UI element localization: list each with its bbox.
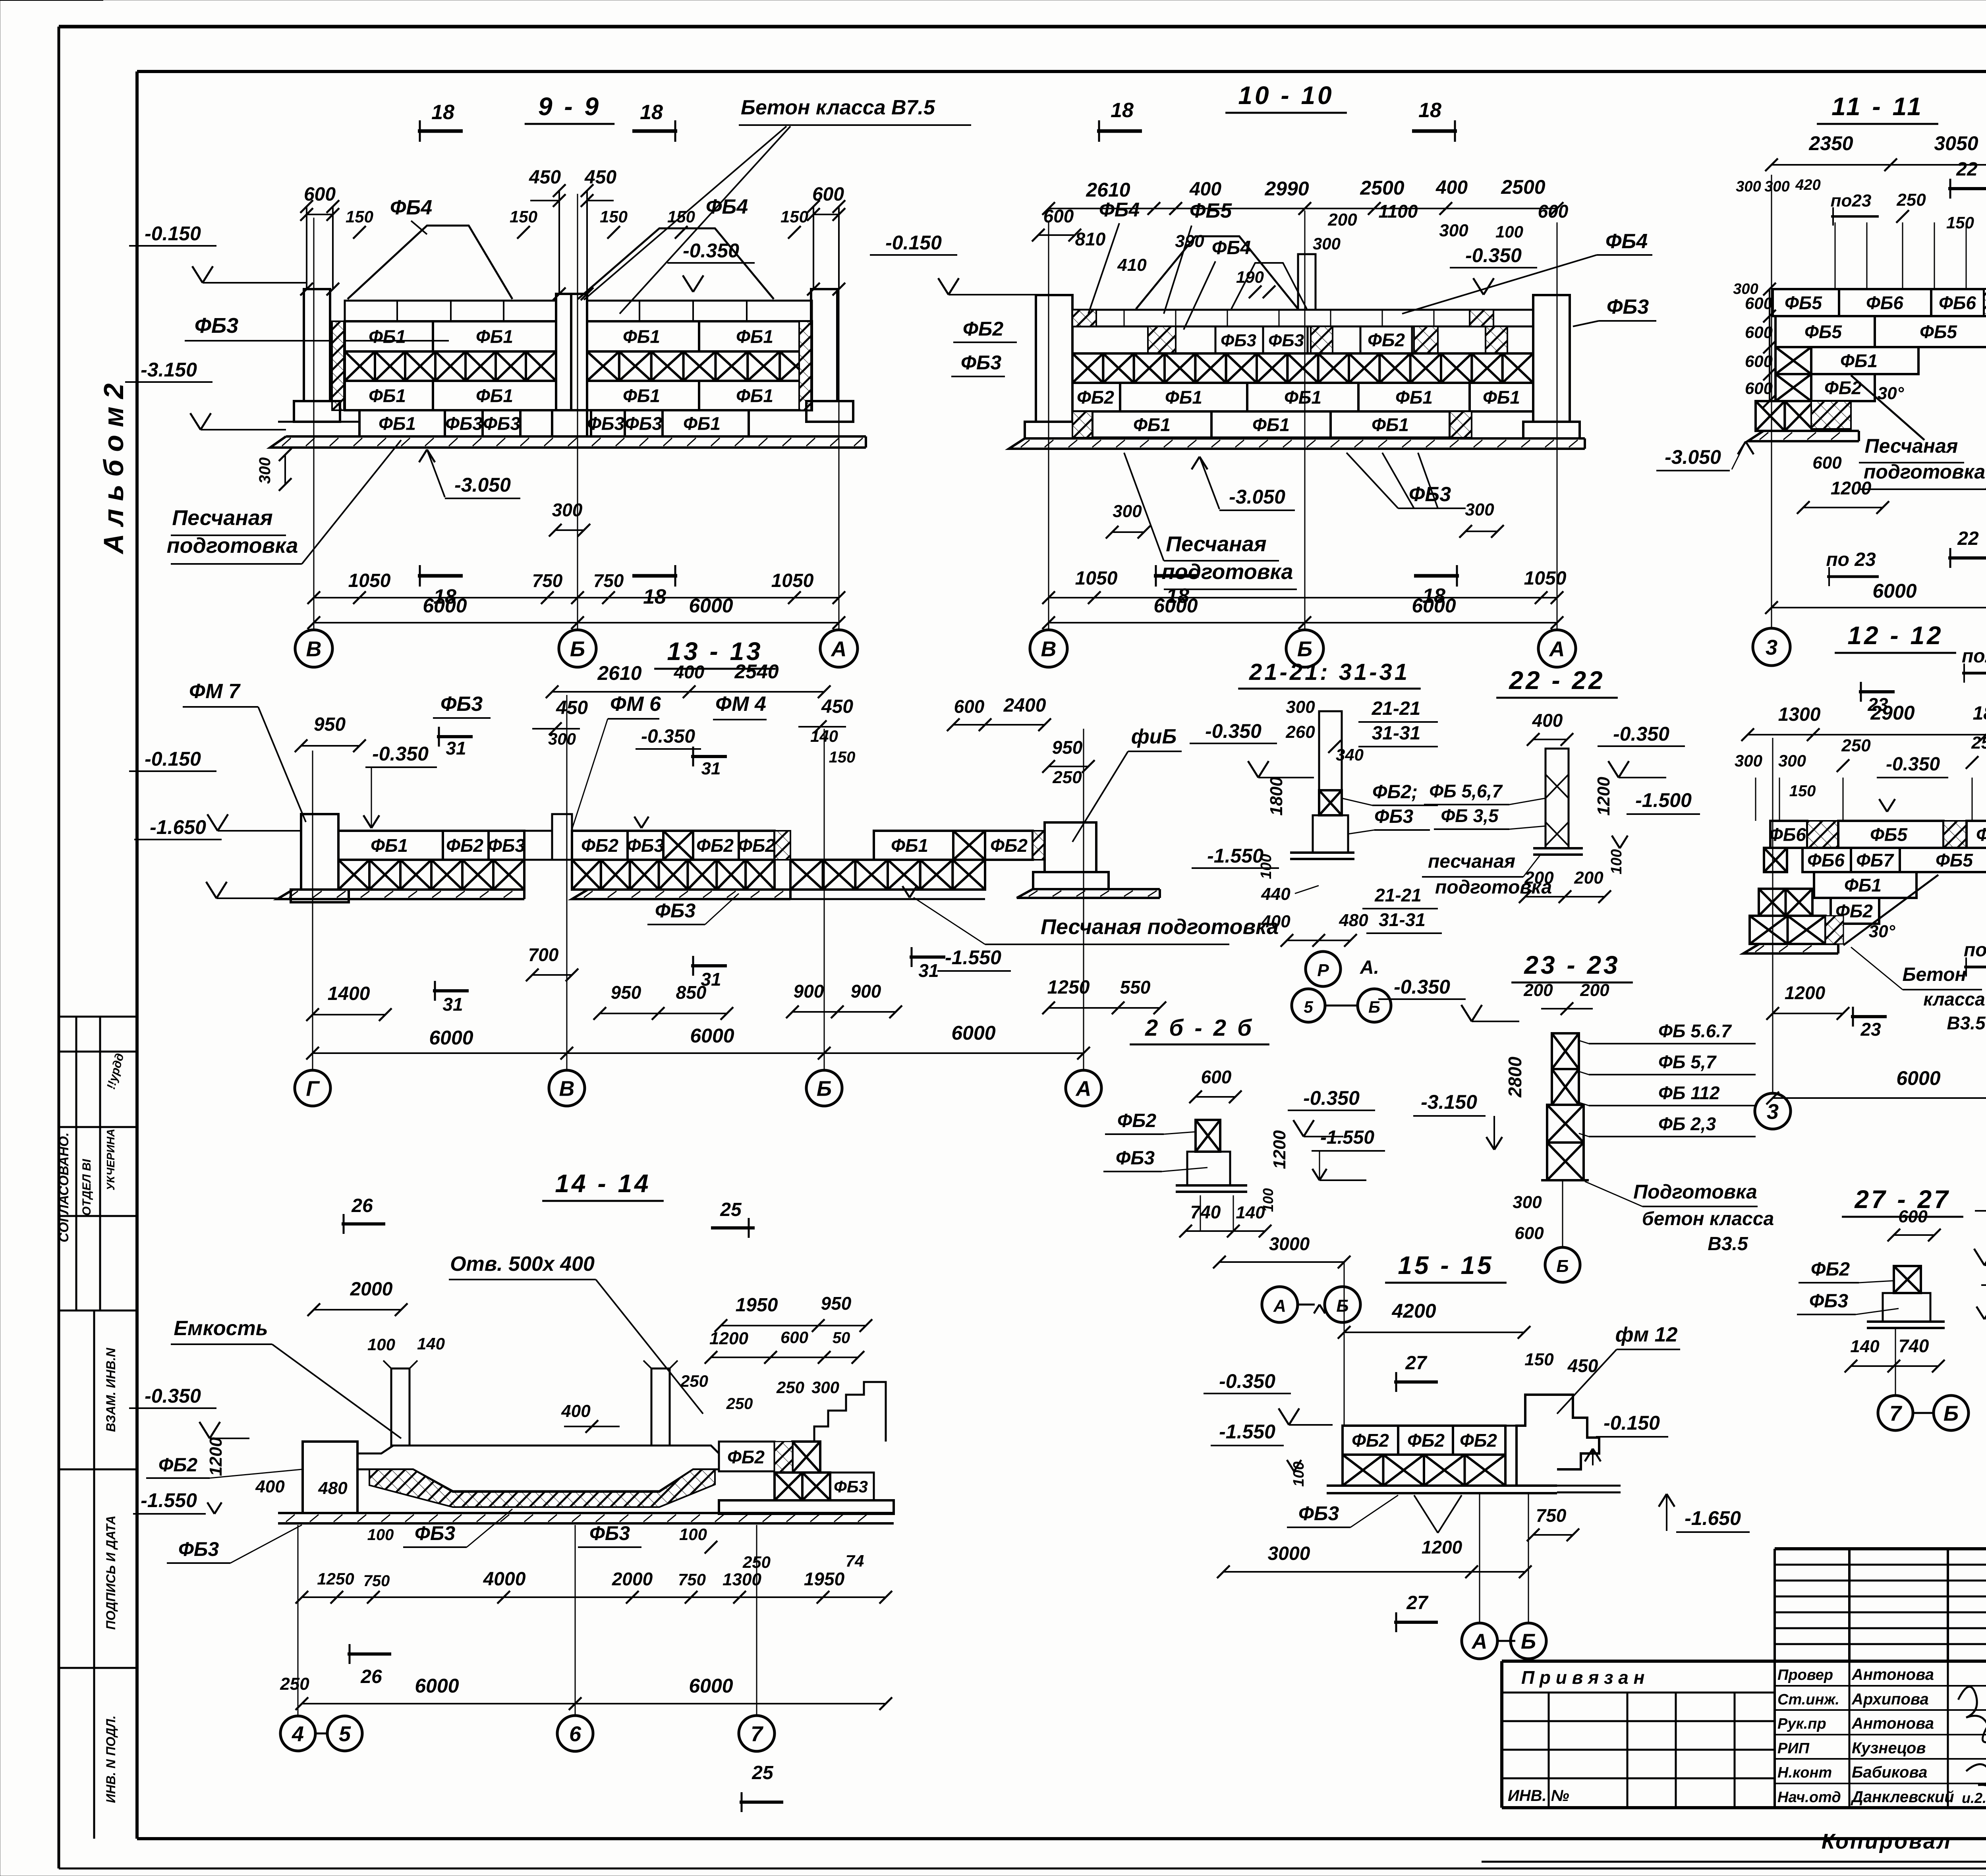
svg-text:7: 7 bbox=[1889, 1401, 1903, 1425]
svg-text:ФБ1: ФБ1 bbox=[736, 326, 773, 347]
svg-text:410: 410 bbox=[1117, 255, 1147, 275]
svg-text:ФБ3: ФБ3 bbox=[655, 899, 695, 922]
svg-text:Провер: Провер bbox=[1777, 1667, 1833, 1683]
svg-text:22: 22 bbox=[1956, 159, 1978, 180]
svg-text:ФБ6: ФБ6 bbox=[1866, 293, 1903, 313]
svg-text:-3.150: -3.150 bbox=[141, 359, 197, 381]
svg-text:18: 18 bbox=[1111, 99, 1134, 122]
svg-text:1800: 1800 bbox=[1267, 777, 1286, 816]
svg-text:950: 950 bbox=[1052, 737, 1083, 758]
svg-text:1200: 1200 bbox=[206, 1437, 226, 1476]
svg-text:740: 740 bbox=[1190, 1202, 1221, 1222]
svg-text:ФБ1: ФБ1 bbox=[683, 413, 721, 434]
svg-text:2000: 2000 bbox=[350, 1279, 393, 1300]
svg-text:-1.650: -1.650 bbox=[1685, 1507, 1741, 1529]
svg-text:300: 300 bbox=[1513, 1193, 1542, 1212]
svg-text:ФБ2: ФБ2 bbox=[963, 318, 1003, 340]
svg-text:5: 5 bbox=[339, 1722, 351, 1746]
svg-text:600: 600 bbox=[1745, 379, 1773, 398]
svg-text:2000: 2000 bbox=[612, 1569, 653, 1589]
svg-text:ФБ 2,3: ФБ 2,3 bbox=[1658, 1114, 1716, 1134]
svg-text:3050: 3050 bbox=[1934, 132, 1978, 154]
svg-text:250: 250 bbox=[280, 1674, 309, 1694]
svg-text:2900: 2900 bbox=[1870, 702, 1915, 724]
svg-text:Песчаная: Песчаная bbox=[172, 506, 272, 530]
svg-text:ФБ5: ФБ5 bbox=[1936, 850, 1973, 870]
svg-text:11 - 11: 11 - 11 bbox=[1831, 92, 1924, 121]
svg-text:700: 700 bbox=[528, 944, 559, 965]
svg-text:ФБ3: ФБ3 bbox=[445, 413, 483, 434]
svg-text:Антонова: Антонова bbox=[1851, 1666, 1934, 1683]
svg-text:1300: 1300 bbox=[723, 1570, 761, 1589]
svg-text:6000: 6000 bbox=[1896, 1067, 1940, 1089]
svg-text:-3.050: -3.050 bbox=[454, 474, 511, 496]
svg-text:25: 25 bbox=[720, 1199, 742, 1220]
svg-text:1250: 1250 bbox=[317, 1569, 354, 1588]
svg-text:ФБ4: ФБ4 bbox=[1605, 230, 1648, 253]
svg-text:18: 18 bbox=[431, 101, 454, 124]
svg-text:150: 150 bbox=[346, 207, 373, 226]
svg-text:100: 100 bbox=[1608, 849, 1625, 874]
svg-text:74: 74 bbox=[846, 1552, 864, 1570]
svg-text:18: 18 bbox=[1418, 99, 1441, 122]
svg-text:СОГЛАСОВАНО.: СОГЛАСОВАНО. bbox=[56, 1133, 71, 1243]
svg-text:480: 480 bbox=[318, 1478, 348, 1498]
svg-text:18: 18 bbox=[640, 101, 663, 124]
svg-text:5: 5 bbox=[1304, 998, 1313, 1016]
svg-text:ФБ2: ФБ2 bbox=[446, 835, 483, 856]
svg-text:15 - 15: 15 - 15 bbox=[1398, 1251, 1493, 1280]
svg-text:450: 450 bbox=[821, 696, 853, 717]
svg-text:Б: Б bbox=[1336, 1296, 1348, 1316]
svg-text:31-31: 31-31 bbox=[1372, 723, 1421, 744]
svg-text:2350: 2350 bbox=[1808, 132, 1853, 154]
svg-text:Б: Б bbox=[1521, 1629, 1536, 1653]
svg-text:100: 100 bbox=[367, 1335, 395, 1354]
svg-text:150: 150 bbox=[510, 207, 537, 226]
svg-text:600: 600 bbox=[954, 696, 985, 717]
svg-text:140: 140 bbox=[1850, 1337, 1880, 1356]
svg-text:31: 31 bbox=[701, 759, 721, 778]
svg-text:300: 300 bbox=[811, 1378, 839, 1397]
svg-text:21-21: 31-31: 21-21: 31-31 bbox=[1249, 659, 1410, 685]
svg-text:-1.550: -1.550 bbox=[1207, 845, 1263, 867]
svg-text:Копировал: Копировал bbox=[1822, 1830, 1952, 1853]
svg-text:1200: 1200 bbox=[1594, 777, 1613, 816]
svg-text:по 23: по 23 bbox=[1826, 549, 1876, 570]
svg-text:1300: 1300 bbox=[1778, 704, 1821, 725]
svg-text:21-21: 21-21 bbox=[1372, 698, 1421, 719]
svg-text:ФБ3: ФБ3 bbox=[178, 1538, 219, 1560]
svg-text:6000: 6000 bbox=[423, 594, 467, 617]
svg-text:31: 31 bbox=[918, 960, 939, 981]
svg-text:ФБ1: ФБ1 bbox=[1840, 351, 1878, 371]
svg-text:Б: Б bbox=[1556, 1256, 1569, 1276]
svg-text:750: 750 bbox=[363, 1572, 390, 1590]
svg-text:ФБ3: ФБ3 bbox=[1374, 806, 1413, 827]
svg-text:1800: 1800 bbox=[1973, 703, 1986, 724]
svg-text:950: 950 bbox=[821, 1293, 852, 1314]
svg-text:600: 600 bbox=[1745, 323, 1773, 342]
svg-text:100: 100 bbox=[679, 1525, 707, 1544]
svg-text:ФБ1: ФБ1 bbox=[476, 386, 513, 406]
svg-text:Бетон класса В7.5: Бетон класса В7.5 bbox=[741, 96, 935, 119]
svg-text:4000: 4000 bbox=[483, 1569, 526, 1590]
svg-text:ФБ3: ФБ3 bbox=[1809, 1291, 1848, 1312]
svg-text:ВЗАМ. ИНВ.N: ВЗАМ. ИНВ.N bbox=[104, 1347, 118, 1432]
svg-text:600: 600 bbox=[1043, 206, 1074, 226]
svg-text:3: 3 bbox=[1766, 635, 1777, 659]
svg-text:440: 440 bbox=[1261, 884, 1291, 904]
svg-text:6000: 6000 bbox=[1412, 594, 1456, 617]
svg-text:300: 300 bbox=[256, 457, 274, 484]
svg-text:Песчаная: Песчаная bbox=[1166, 532, 1266, 556]
svg-text:27: 27 bbox=[1406, 1592, 1429, 1614]
svg-text:10 - 10: 10 - 10 bbox=[1238, 81, 1334, 110]
svg-text:-0.350: -0.350 bbox=[1219, 1370, 1275, 1392]
svg-text:УКЧЕРИНА: УКЧЕРИНА bbox=[104, 1129, 117, 1190]
svg-text:26: 26 bbox=[351, 1195, 373, 1216]
svg-text:Б: Б bbox=[1297, 637, 1312, 661]
svg-text:1200: 1200 bbox=[1270, 1130, 1289, 1169]
svg-text:-0.350: -0.350 bbox=[1613, 723, 1669, 745]
svg-text:ФБ1: ФБ1 bbox=[369, 326, 406, 347]
svg-text:ФБ3: ФБ3 bbox=[488, 835, 525, 856]
svg-text:Б: Б bbox=[1943, 1401, 1959, 1425]
svg-text:А: А bbox=[1471, 1629, 1488, 1653]
svg-text:100: 100 bbox=[367, 1526, 394, 1544]
svg-text:12 - 12: 12 - 12 bbox=[1847, 621, 1943, 650]
svg-text:900: 900 bbox=[851, 981, 881, 1002]
svg-text:-1.550: -1.550 bbox=[141, 1489, 197, 1511]
svg-text:ФБ3: ФБ3 bbox=[627, 835, 664, 856]
svg-text:А: А bbox=[1549, 637, 1565, 661]
svg-text:Емкость: Емкость bbox=[174, 1317, 268, 1340]
svg-text:ФМ 7: ФМ 7 bbox=[189, 680, 241, 703]
svg-text:ФБ6: ФБ6 bbox=[1976, 824, 1986, 845]
svg-text:А л ь б о м 2: А л ь б о м 2 bbox=[98, 383, 129, 554]
svg-text:ФБ1: ФБ1 bbox=[623, 386, 660, 406]
svg-text:ФБ5: ФБ5 bbox=[1920, 322, 1957, 342]
svg-text:6000: 6000 bbox=[1153, 594, 1198, 617]
svg-text:7: 7 bbox=[751, 1722, 764, 1746]
svg-text:1200: 1200 bbox=[709, 1329, 748, 1348]
svg-text:9 - 9: 9 - 9 bbox=[538, 92, 601, 121]
svg-text:по22: по22 bbox=[1964, 940, 1986, 961]
svg-text:ФБ5: ФБ5 bbox=[1190, 199, 1232, 222]
svg-text:150: 150 bbox=[780, 207, 808, 226]
svg-text:1050: 1050 bbox=[1075, 568, 1118, 589]
svg-text:В3.5: В3.5 bbox=[1708, 1233, 1748, 1255]
svg-text:РИП: РИП bbox=[1777, 1740, 1810, 1757]
svg-text:200: 200 bbox=[1327, 210, 1357, 230]
svg-text:1200: 1200 bbox=[1422, 1537, 1462, 1558]
svg-text:ФБ3: ФБ3 bbox=[440, 693, 483, 716]
svg-text:ИНВ. №: ИНВ. № bbox=[1508, 1787, 1569, 1805]
svg-text:Г: Г bbox=[306, 1077, 320, 1100]
svg-text:-0.350: -0.350 bbox=[145, 1385, 201, 1407]
svg-text:2 б - 2 б: 2 б - 2 б bbox=[1145, 1015, 1254, 1041]
svg-text:400: 400 bbox=[561, 1401, 591, 1421]
svg-text:Бетон: Бетон bbox=[1902, 964, 1966, 985]
svg-text:400: 400 bbox=[255, 1477, 285, 1496]
svg-text:600: 600 bbox=[1515, 1224, 1544, 1243]
svg-text:ФБ4: ФБ4 bbox=[1212, 237, 1251, 259]
svg-text:ФБ6: ФБ6 bbox=[1769, 824, 1806, 845]
svg-text:31: 31 bbox=[446, 738, 466, 759]
svg-text:31-31: 31-31 bbox=[1379, 909, 1426, 930]
svg-text:21-21: 21-21 bbox=[1374, 885, 1422, 905]
svg-text:фм 12: фм 12 bbox=[1615, 1323, 1678, 1346]
svg-text:ФБ 5,6,7: ФБ 5,6,7 bbox=[1429, 781, 1503, 801]
svg-text:1400: 1400 bbox=[328, 983, 370, 1004]
svg-text:ИНВ. N ПОДЛ.: ИНВ. N ПОДЛ. bbox=[104, 1716, 118, 1803]
svg-text:ФБ3: ФБ3 bbox=[1221, 331, 1256, 350]
svg-text:450: 450 bbox=[556, 697, 588, 718]
svg-text:ФМ 6: ФМ 6 bbox=[610, 693, 661, 716]
svg-text:ФБ3: ФБ3 bbox=[589, 1522, 630, 1544]
svg-text:ФМ 4: ФМ 4 bbox=[715, 693, 766, 716]
svg-text:900: 900 bbox=[794, 981, 824, 1002]
svg-text:-1.550: -1.550 bbox=[1320, 1127, 1374, 1148]
svg-text:250: 250 bbox=[1841, 736, 1871, 755]
svg-text:Рук.пр: Рук.пр bbox=[1777, 1716, 1826, 1732]
svg-text:-0.150: -0.150 bbox=[145, 748, 201, 770]
svg-text:ФБ3: ФБ3 bbox=[1116, 1148, 1155, 1169]
svg-text:3000: 3000 bbox=[1269, 1233, 1310, 1254]
svg-text:200: 200 bbox=[1580, 980, 1609, 1000]
svg-text:750: 750 bbox=[678, 1570, 706, 1589]
svg-text:750: 750 bbox=[532, 570, 563, 591]
svg-text:-0.350: -0.350 bbox=[372, 743, 429, 765]
svg-text:ФБ1: ФБ1 bbox=[1252, 415, 1290, 435]
svg-text:Песчаная подготовка: Песчаная подготовка bbox=[1041, 915, 1279, 939]
svg-text:1950: 1950 bbox=[804, 1569, 845, 1589]
svg-text:4200: 4200 bbox=[1391, 1300, 1436, 1322]
svg-text:23 - 23: 23 - 23 bbox=[1524, 951, 1620, 979]
svg-text:260: 260 bbox=[1285, 722, 1315, 742]
svg-text:100: 100 bbox=[1291, 1461, 1307, 1486]
svg-text:300: 300 bbox=[1113, 502, 1142, 521]
svg-text:по22: по22 bbox=[1962, 646, 1986, 667]
svg-text:В: В bbox=[306, 637, 322, 661]
svg-text:А.: А. bbox=[1360, 957, 1379, 978]
svg-text:250: 250 bbox=[1052, 768, 1082, 787]
svg-text:класса: класса bbox=[1923, 989, 1985, 1009]
svg-text:140: 140 bbox=[417, 1334, 445, 1353]
svg-text:Подготовка: Подготовка bbox=[1633, 1181, 1757, 1203]
svg-text:2610: 2610 bbox=[597, 662, 641, 684]
svg-text:1050: 1050 bbox=[1524, 568, 1567, 589]
svg-text:ФБ3: ФБ3 bbox=[1268, 331, 1304, 350]
svg-text:100: 100 bbox=[1495, 222, 1523, 241]
svg-text:3000: 3000 bbox=[1268, 1543, 1310, 1564]
svg-text:Нач.отд: Нач.отд bbox=[1777, 1789, 1841, 1806]
svg-text:Архипова: Архипова bbox=[1851, 1691, 1929, 1708]
svg-text:22 - 22: 22 - 22 bbox=[1509, 666, 1605, 695]
svg-text:400: 400 bbox=[1532, 710, 1563, 731]
svg-text:-3.050: -3.050 bbox=[1229, 486, 1285, 508]
svg-text:250: 250 bbox=[680, 1372, 708, 1390]
svg-text:150: 150 bbox=[1524, 1350, 1554, 1369]
svg-text:300: 300 bbox=[1313, 234, 1341, 253]
svg-text:подготовка: подготовка bbox=[1162, 560, 1293, 584]
svg-text:300: 300 bbox=[1733, 281, 1758, 297]
svg-text:300: 300 bbox=[1736, 178, 1761, 195]
svg-text:А: А bbox=[831, 637, 847, 661]
svg-text:ФБ4: ФБ4 bbox=[706, 195, 748, 218]
svg-text:31: 31 bbox=[442, 994, 463, 1015]
svg-text:50: 50 bbox=[833, 1329, 850, 1347]
svg-text:ПОДПИСЬ И ДАТА: ПОДПИСЬ И ДАТА bbox=[104, 1515, 118, 1630]
svg-text:6000: 6000 bbox=[951, 1022, 995, 1044]
svg-text:ФБ2: ФБ2 bbox=[727, 1447, 765, 1467]
svg-text:250: 250 bbox=[1971, 733, 1986, 753]
svg-text:ФБ 5.6.7: ФБ 5.6.7 bbox=[1658, 1021, 1732, 1041]
svg-text:1100: 1100 bbox=[1379, 201, 1418, 222]
svg-text:600: 600 bbox=[304, 184, 336, 205]
svg-text:-0.350: -0.350 bbox=[1886, 754, 1940, 775]
svg-text:30°: 30° bbox=[1869, 922, 1895, 941]
svg-text:3: 3 bbox=[1767, 1100, 1779, 1123]
svg-text:ФБ2: ФБ2 bbox=[1352, 1430, 1389, 1451]
svg-text:-1.650: -1.650 bbox=[150, 816, 206, 838]
svg-text:300: 300 bbox=[1764, 178, 1789, 195]
svg-text:песчаная: песчаная bbox=[1428, 851, 1515, 872]
svg-text:П р и в я з а н: П р и в я з а н bbox=[1521, 1667, 1644, 1688]
svg-text:740: 740 bbox=[1899, 1336, 1929, 1356]
svg-text:ФБ2: ФБ2 bbox=[738, 835, 775, 856]
svg-text:подготовка: подготовка bbox=[1435, 877, 1552, 898]
svg-text:ФБ2: ФБ2 bbox=[696, 835, 734, 856]
svg-text:ФБ1: ФБ1 bbox=[476, 326, 513, 347]
svg-text:подготовка: подготовка bbox=[167, 534, 298, 558]
svg-text:810: 810 bbox=[1075, 229, 1106, 249]
svg-text:250: 250 bbox=[726, 1395, 753, 1413]
svg-text:2540: 2540 bbox=[734, 660, 779, 683]
svg-text:В: В bbox=[1041, 637, 1057, 661]
svg-text:ФБ4: ФБ4 bbox=[1099, 199, 1140, 221]
svg-text:Б: Б bbox=[570, 637, 585, 661]
svg-text:-0.350: -0.350 bbox=[1205, 720, 1262, 742]
svg-text:2610: 2610 bbox=[1086, 179, 1130, 201]
svg-text:300: 300 bbox=[1778, 751, 1806, 770]
svg-text:-1.500: -1.500 bbox=[1635, 789, 1692, 811]
svg-text:480: 480 bbox=[1339, 911, 1368, 930]
svg-text:4: 4 bbox=[292, 1722, 304, 1746]
svg-text:-1.550: -1.550 bbox=[945, 946, 1001, 969]
svg-text:-0.350: -0.350 bbox=[1465, 244, 1522, 266]
svg-text:420: 420 bbox=[1795, 177, 1820, 193]
svg-text:ФБ 3,5: ФБ 3,5 bbox=[1441, 805, 1499, 826]
svg-text:ФБ1: ФБ1 bbox=[1133, 415, 1171, 435]
svg-text:ФБ3: ФБ3 bbox=[415, 1522, 455, 1544]
svg-text:Отв. 500х 400: Отв. 500х 400 bbox=[450, 1253, 595, 1276]
svg-text:ФБ2: ФБ2 bbox=[1368, 330, 1405, 350]
svg-text:ФБ2: ФБ2 bbox=[1460, 1430, 1497, 1451]
svg-text:ФБ3: ФБ3 bbox=[961, 351, 1001, 374]
svg-text:2990: 2990 bbox=[1264, 178, 1309, 200]
svg-text:450: 450 bbox=[584, 167, 616, 188]
svg-text:300: 300 bbox=[1286, 697, 1315, 717]
svg-text:А: А bbox=[1075, 1077, 1092, 1100]
svg-text:400: 400 bbox=[1435, 177, 1468, 198]
svg-text:600: 600 bbox=[1898, 1207, 1928, 1226]
svg-text:-3.050: -3.050 bbox=[1665, 446, 1721, 468]
svg-text:ФБ3: ФБ3 bbox=[587, 413, 624, 434]
svg-text:подготовка: подготовка bbox=[1864, 461, 1985, 483]
svg-text:1200: 1200 bbox=[1785, 982, 1826, 1003]
svg-text:600: 600 bbox=[1538, 201, 1569, 222]
svg-text:600: 600 bbox=[1745, 352, 1773, 371]
svg-text:150: 150 bbox=[667, 207, 695, 226]
svg-text:Р: Р bbox=[1317, 961, 1329, 980]
svg-text:ФБ3: ФБ3 bbox=[195, 314, 238, 338]
svg-text:фиБ: фиБ bbox=[1131, 725, 1177, 748]
svg-text:ФБ3: ФБ3 bbox=[625, 413, 662, 434]
svg-text:-0.350: -0.350 bbox=[1394, 976, 1450, 998]
svg-text:6: 6 bbox=[569, 1722, 582, 1746]
svg-text:ФБ5: ФБ5 bbox=[1804, 322, 1842, 342]
svg-text:6000: 6000 bbox=[415, 1675, 459, 1697]
svg-text:-0.150: -0.150 bbox=[1603, 1412, 1660, 1434]
svg-text:-0.150: -0.150 bbox=[145, 222, 201, 245]
svg-text:300: 300 bbox=[548, 730, 576, 748]
svg-text:150: 150 bbox=[829, 749, 856, 766]
svg-text:Б: Б bbox=[817, 1077, 832, 1100]
svg-text:ФБ1: ФБ1 bbox=[1372, 415, 1409, 435]
svg-text:ФБ1: ФБ1 bbox=[736, 386, 773, 406]
svg-text:бетон класса: бетон класса bbox=[1642, 1208, 1774, 1229]
svg-text:-0.350: -0.350 bbox=[641, 726, 695, 747]
svg-text:150: 150 bbox=[600, 207, 628, 226]
svg-text:14 - 14: 14 - 14 bbox=[555, 1169, 651, 1198]
svg-text:Б: Б bbox=[1368, 998, 1380, 1016]
svg-text:1200: 1200 bbox=[1831, 478, 1872, 498]
svg-text:6000: 6000 bbox=[429, 1027, 473, 1049]
svg-text:Данклевский: Данклевский bbox=[1851, 1788, 1954, 1806]
svg-text:190: 190 bbox=[1236, 268, 1264, 286]
svg-text:ФБ2: ФБ2 bbox=[1811, 1259, 1850, 1280]
svg-text:400: 400 bbox=[1189, 179, 1221, 200]
svg-text:ФБ1: ФБ1 bbox=[379, 413, 416, 434]
svg-text:140: 140 bbox=[1236, 1203, 1265, 1222]
svg-text:1050: 1050 bbox=[771, 570, 814, 591]
svg-text:ФБ 5,7: ФБ 5,7 bbox=[1658, 1052, 1717, 1072]
svg-text:ФБ6: ФБ6 bbox=[1939, 293, 1976, 313]
svg-text:ФБ 112: ФБ 112 bbox=[1658, 1083, 1720, 1103]
svg-text:600: 600 bbox=[1201, 1067, 1232, 1087]
svg-text:ФБ2: ФБ2 bbox=[1077, 387, 1114, 408]
svg-text:-3.150: -3.150 bbox=[1421, 1091, 1477, 1113]
svg-text:Песчаная: Песчаная bbox=[1865, 435, 1958, 457]
svg-text:-0.350: -0.350 bbox=[683, 239, 739, 262]
svg-text:250: 250 bbox=[776, 1378, 804, 1397]
svg-text:1050: 1050 bbox=[348, 570, 391, 591]
svg-text:23: 23 bbox=[1860, 1019, 1881, 1040]
svg-text:Н.конт: Н.конт bbox=[1777, 1764, 1832, 1781]
svg-text:300: 300 bbox=[1465, 500, 1494, 519]
svg-text:В3.5: В3.5 bbox=[1947, 1013, 1986, 1033]
svg-text:6000: 6000 bbox=[689, 1675, 733, 1697]
svg-text:и.2.5: и.2.5 bbox=[1962, 1790, 1986, 1806]
svg-text:ФБ2: ФБ2 bbox=[1407, 1430, 1445, 1451]
svg-text:по23: по23 bbox=[1831, 191, 1872, 210]
svg-text:Бабикова: Бабикова bbox=[1852, 1764, 1927, 1781]
svg-text:850: 850 bbox=[676, 982, 707, 1003]
svg-text:В: В bbox=[559, 1077, 575, 1100]
svg-text:ФБ1: ФБ1 bbox=[1483, 387, 1520, 408]
